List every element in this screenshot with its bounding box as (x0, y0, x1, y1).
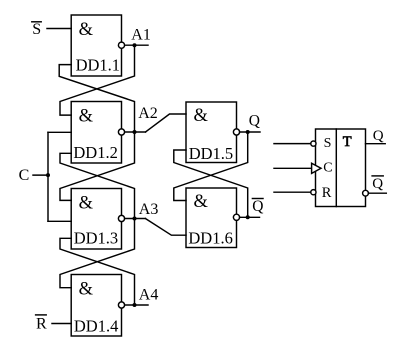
wire A3 to DD1.6 input 2 (145, 219, 186, 236)
label R-bar (36, 316, 47, 333)
svg-text:&: & (194, 106, 209, 126)
node Q junction dot (246, 130, 250, 134)
wire Q output stub (240, 131, 260, 133)
wire A3 output stub (125, 218, 146, 220)
label Q of DD1.5 (249, 113, 260, 130)
node A2 junction dot (133, 130, 137, 134)
wire A3 to DD1.4 input 1 (60, 219, 135, 288)
svg-text:DD1.6: DD1.6 (188, 229, 232, 248)
wire Q output of T flip-flop (366, 143, 386, 145)
svg-text:Q: Q (372, 176, 383, 192)
label Q-bar of DD1.6 (252, 198, 263, 215)
wire A2 to DD1.3 input 1 (60, 132, 135, 200)
svg-text:DD1.3: DD1.3 (74, 229, 118, 248)
svg-text:&: & (79, 20, 94, 40)
wire DD1.2 input 3 from A3 (60, 153, 135, 218)
wire S-bar to DD1.1 input 1 (47, 28, 71, 30)
gate DD1.5 (186, 102, 240, 163)
label A1 (131, 27, 151, 44)
wire A2 output stub (125, 131, 146, 133)
wire Q-bar output stub (240, 216, 260, 218)
wire S input lead of T flip-flop (274, 143, 311, 145)
wire Q to DD1.6 input 1 (174, 132, 248, 201)
node A1 junction dot (133, 43, 137, 47)
wire C to DD1.2 input 2 (48, 131, 71, 133)
gate DD1.6 (186, 188, 240, 248)
wire DD1.3 input 3 from A4 (60, 238, 135, 305)
wire DD1.1 input 2 from A2 (59, 65, 134, 132)
svg-text:A2: A2 (138, 105, 158, 122)
wire A4 output stub (125, 304, 148, 306)
svg-text:&: & (194, 192, 209, 212)
wire R-bar to DD1.4 input 2 (52, 323, 71, 325)
svg-text:C: C (19, 167, 30, 184)
node A3 junction dot (133, 217, 137, 221)
gate DD1.1 (71, 15, 124, 76)
svg-text:A4: A4 (139, 287, 159, 304)
overline of Q-bar output (372, 175, 383, 177)
node Q-bar junction dot (246, 215, 250, 219)
inverter bubble R input (311, 190, 316, 195)
overline of R (36, 314, 47, 316)
label C (19, 167, 30, 184)
svg-text:S: S (324, 136, 332, 151)
wire A1 output stub (125, 44, 148, 46)
svg-text:Q: Q (249, 113, 260, 130)
svg-text:Q: Q (252, 198, 263, 215)
label A2 (138, 105, 158, 122)
node A4 junction dot (133, 303, 137, 307)
pin label R (322, 185, 332, 201)
wire C lead (33, 174, 48, 176)
inverter bubble Q-bar output (363, 190, 369, 196)
svg-text:A1: A1 (131, 27, 151, 44)
wire Q-bar output of T flip-flop (368, 192, 386, 194)
svg-text:S: S (32, 21, 41, 38)
label S-bar (32, 21, 41, 38)
svg-text:&: & (79, 194, 94, 214)
label A3 (139, 201, 159, 218)
svg-text:R: R (36, 316, 47, 333)
gate DD1.4 (71, 275, 124, 337)
svg-text:T: T (343, 134, 352, 150)
node C junction dot (46, 173, 50, 177)
svg-text:Q: Q (373, 128, 384, 144)
wire DD1.5 input 2 from Q-bar (174, 150, 248, 217)
gate DD1.2 (71, 102, 124, 164)
gate DD1.3 (71, 189, 124, 250)
dynamic input triangle C (312, 163, 321, 173)
inverter bubble S input (311, 141, 316, 146)
overline of Q-bar DD1.6 (252, 198, 263, 200)
svg-text:R: R (322, 185, 332, 201)
svg-text:DD1.2: DD1.2 (73, 143, 117, 162)
svg-text:&: & (79, 107, 94, 127)
label A4 (139, 287, 159, 304)
svg-text:DD1.1: DD1.1 (76, 56, 120, 75)
overline of S (32, 21, 41, 23)
svg-text:A3: A3 (139, 201, 159, 218)
wire A1 to DD1.2 input 1 (60, 45, 135, 115)
wire R input lead of T flip-flop (274, 191, 311, 193)
T flip-flop U1 body (316, 129, 366, 207)
wire C bus vertical (47, 132, 49, 221)
pin label Q-bar output (372, 176, 383, 192)
svg-text:DD1.4: DD1.4 (74, 316, 118, 335)
wire C to DD1.3 input 2 (48, 220, 71, 222)
pin label Q output (373, 128, 384, 144)
pin label C (323, 161, 332, 176)
svg-text:C: C (323, 161, 332, 176)
pin label S (324, 136, 332, 151)
svg-text:&: & (79, 280, 94, 300)
svg-text:DD1.5: DD1.5 (189, 144, 233, 163)
wire C input lead of T flip-flop (274, 167, 312, 169)
wire A2 to DD1.5 input 1 (146, 114, 187, 132)
